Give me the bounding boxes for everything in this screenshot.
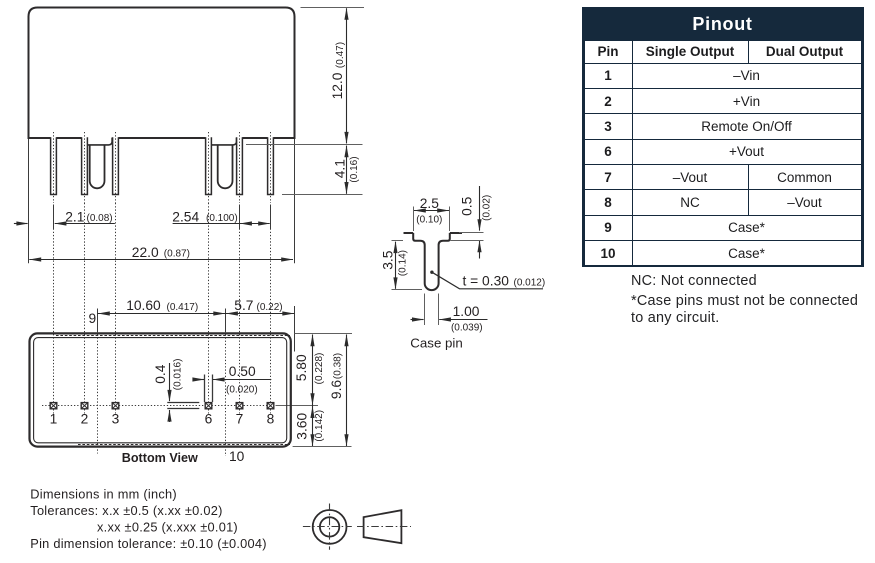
- svg-text:Tolerances: x.x ±0.5 (x.xx ±0.: Tolerances: x.x ±0.5 (x.xx ±0.02): [30, 503, 222, 518]
- svg-text:8: 8: [267, 411, 275, 426]
- svg-text:Pin dimension tolerance: ±0.10: Pin dimension tolerance: ±0.10 (±0.004): [30, 536, 266, 551]
- svg-text:(0.020): (0.020): [226, 385, 258, 396]
- svg-text:(0.87): (0.87): [164, 249, 190, 260]
- svg-text:Bottom View: Bottom View: [122, 451, 198, 465]
- svg-text:(0.012): (0.012): [514, 278, 546, 289]
- svg-text:3: 3: [112, 411, 120, 426]
- svg-text:2: 2: [81, 411, 89, 426]
- svg-text:12.0: 12.0: [330, 72, 345, 99]
- svg-text:(0.14): (0.14): [398, 250, 409, 276]
- svg-text:(0.22): (0.22): [257, 302, 283, 313]
- svg-text:1.00: 1.00: [453, 304, 480, 319]
- svg-text:(0.039): (0.039): [451, 323, 483, 334]
- svg-text:0.5: 0.5: [460, 196, 475, 216]
- svg-text:Case pin: Case pin: [410, 336, 462, 351]
- svg-text:5.7: 5.7: [234, 298, 253, 313]
- svg-text:(0.47): (0.47): [335, 42, 346, 68]
- svg-text:1: 1: [50, 411, 58, 426]
- svg-text:2.5: 2.5: [420, 196, 440, 211]
- svg-text:(0.38): (0.38): [333, 353, 344, 379]
- svg-text:(0.10): (0.10): [416, 214, 442, 225]
- svg-text:4.1: 4.1: [332, 159, 347, 178]
- svg-text:(0.100): (0.100): [206, 213, 238, 224]
- svg-text:(0.08): (0.08): [87, 213, 113, 224]
- svg-text:(0.228): (0.228): [314, 353, 325, 385]
- svg-text:10.60: 10.60: [126, 298, 161, 313]
- svg-text:2.54: 2.54: [172, 210, 199, 225]
- svg-text:(0.417): (0.417): [167, 302, 199, 313]
- svg-text:0.4: 0.4: [153, 364, 168, 384]
- svg-text:(0.16): (0.16): [349, 156, 360, 182]
- svg-text:Dimensions in mm (inch): Dimensions in mm (inch): [30, 487, 177, 502]
- svg-text:(0.016): (0.016): [173, 359, 184, 391]
- svg-text:3.60: 3.60: [295, 413, 310, 440]
- svg-text:7: 7: [236, 411, 244, 426]
- svg-text:t = 0.30: t = 0.30: [463, 274, 510, 289]
- svg-text:(0.142): (0.142): [314, 410, 325, 442]
- svg-text:5.80: 5.80: [294, 354, 309, 381]
- svg-text:3.5: 3.5: [381, 250, 396, 270]
- svg-text:22.0: 22.0: [132, 245, 159, 260]
- svg-text:2.1: 2.1: [65, 210, 84, 225]
- svg-text:(0.02): (0.02): [481, 195, 492, 221]
- svg-text:9.6: 9.6: [329, 380, 344, 400]
- svg-text:6: 6: [205, 411, 213, 426]
- svg-text:9: 9: [89, 311, 97, 326]
- svg-text:x.xx ±0.25 (x.xxx ±0.01): x.xx ±0.25 (x.xxx ±0.01): [97, 520, 238, 535]
- svg-text:10: 10: [229, 449, 245, 464]
- svg-text:0.50: 0.50: [229, 364, 256, 379]
